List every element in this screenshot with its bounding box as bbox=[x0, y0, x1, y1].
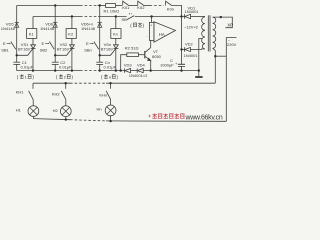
wire collector to HA bbox=[150, 40, 152, 47]
node busA VS1 bbox=[32, 69, 34, 71]
transistor VT bbox=[144, 51, 146, 59]
svg-text:n: n bbox=[109, 75, 111, 80]
switch SB2 blade bbox=[49, 42, 54, 50]
node xfmr top bbox=[220, 16, 222, 18]
thyristor VS2 bbox=[71, 38, 73, 44]
node rail2 K2 bbox=[71, 15, 73, 17]
diode VD6n bbox=[97, 22, 102, 27]
svg-text:): ) bbox=[117, 75, 119, 80]
wire coil bottom stub bbox=[202, 48, 206, 50]
node xfmr bottom bbox=[214, 55, 216, 57]
node rail1 ch2 bbox=[54, 4, 56, 6]
svg-text:K01: K01 bbox=[122, 5, 130, 10]
ground bbox=[198, 71, 200, 77]
wire primary bottom bbox=[213, 48, 216, 56]
diode VD4 bbox=[136, 68, 138, 72]
wire rail2 after SB bbox=[135, 16, 184, 18]
svg-text:VD2: VD2 bbox=[185, 42, 194, 47]
wire 220V bracket bbox=[226, 38, 236, 57]
svg-text:): ) bbox=[72, 75, 74, 80]
svg-text:R1 10kΩ: R1 10kΩ bbox=[104, 9, 120, 14]
wire busA mid bbox=[98, 70, 124, 72]
thyristor VSn bbox=[115, 38, 117, 44]
wire mains down bbox=[225, 56, 227, 121]
wire lamp bottoms bbox=[32, 116, 34, 118]
svg-text:HA: HA bbox=[159, 32, 165, 37]
node VD2 bbox=[180, 48, 182, 50]
switch contact K02 bbox=[138, 1, 144, 5]
svg-text:1N4148: 1N4148 bbox=[40, 26, 55, 31]
relay K1 box bbox=[27, 29, 37, 39]
node busA C bbox=[180, 69, 182, 71]
node busA Cn bbox=[99, 69, 101, 71]
node busA C2 bbox=[54, 69, 56, 71]
svg-text:220V: 220V bbox=[227, 42, 237, 47]
svg-text:K02: K02 bbox=[137, 5, 145, 10]
svg-text:H2: H2 bbox=[53, 108, 59, 113]
svg-text:~12V×2: ~12V×2 bbox=[184, 24, 199, 29]
node busA VS2 bbox=[71, 69, 73, 71]
wire rail1 top bbox=[17, 5, 80, 7]
svg-text:0.01μF: 0.01μF bbox=[59, 64, 72, 69]
svg-text:SB: SB bbox=[122, 17, 128, 22]
capacitor C2 bbox=[54, 55, 56, 62]
lamp Hn bbox=[105, 105, 116, 116]
resistor R2 bbox=[127, 53, 139, 57]
wire VD3-VD4 bbox=[131, 70, 138, 72]
svg-text:KH1: KH1 bbox=[16, 90, 25, 95]
node busA VT bbox=[150, 69, 152, 71]
wire VD1 to transformer bbox=[191, 16, 205, 18]
wire busB bbox=[33, 82, 70, 84]
diode VD2 bbox=[184, 47, 186, 51]
svg-text:): ) bbox=[143, 23, 145, 28]
node rail1 chn bbox=[99, 4, 101, 6]
svg-text:SBn: SBn bbox=[84, 47, 92, 52]
wire rail2 bbox=[33, 16, 80, 18]
wire center tap ground bbox=[199, 39, 202, 71]
wire VD6 branch ch2 bbox=[54, 6, 56, 56]
wire gate VSn bbox=[100, 49, 116, 56]
svg-text:+: + bbox=[150, 24, 152, 28]
svg-text:SB2: SB2 bbox=[40, 47, 48, 52]
svg-text:1000μF: 1000μF bbox=[160, 63, 174, 68]
wire busA left bbox=[17, 70, 80, 72]
node ground bbox=[198, 69, 200, 71]
capacitor C1 bbox=[16, 55, 18, 62]
wire rail1 to R1 bbox=[98, 5, 106, 7]
node busB KHn bbox=[109, 82, 111, 84]
node gate1 bbox=[16, 54, 18, 56]
svg-text:2: 2 bbox=[64, 75, 67, 80]
svg-text:E: E bbox=[3, 41, 6, 46]
wire VD2 to coil bottom bbox=[190, 48, 201, 51]
switch SB1 blade bbox=[11, 42, 16, 50]
svg-text:H1: H1 bbox=[16, 108, 22, 113]
capacitor C 1000uF bbox=[178, 63, 185, 65]
wire HA to rail2 bbox=[151, 17, 153, 23]
svg-text:BT169: BT169 bbox=[57, 47, 70, 52]
wire K0n to corner bbox=[172, 6, 182, 17]
svg-text:0.01μF: 0.01μF bbox=[104, 64, 117, 69]
lamp H1 bbox=[28, 106, 39, 117]
node gate2 bbox=[54, 54, 56, 56]
node busB KH2 bbox=[65, 82, 67, 84]
svg-text:(: ( bbox=[56, 75, 58, 80]
svg-text:+: + bbox=[175, 61, 178, 66]
node busA VSn bbox=[115, 69, 117, 71]
switch contact K0n bbox=[166, 1, 172, 5]
diode VD5 bbox=[14, 22, 19, 27]
wire emitter to busA bbox=[150, 61, 152, 71]
svg-text:E: E bbox=[42, 41, 45, 46]
transformer primary coil bbox=[213, 17, 216, 48]
wire primary top to XP bbox=[213, 17, 233, 28]
wire VD6n branch chn bbox=[99, 6, 101, 56]
speaker HA bbox=[149, 22, 154, 40]
svg-text:8050: 8050 bbox=[152, 54, 162, 59]
svg-text:BT169: BT169 bbox=[18, 47, 31, 52]
svg-text:Hn: Hn bbox=[97, 106, 102, 111]
svg-text:www.66kv.cn: www.66kv.cn bbox=[185, 114, 223, 121]
switch KHn bbox=[110, 83, 112, 89]
svg-text:-: - bbox=[147, 34, 148, 38]
diode VD1 bbox=[183, 14, 185, 19]
svg-text:): ) bbox=[32, 75, 34, 80]
svg-text:KH2: KH2 bbox=[52, 92, 61, 97]
wire K2 drop bbox=[71, 17, 73, 29]
switch KH1 bbox=[32, 83, 34, 89]
resistor R1 bbox=[106, 4, 116, 8]
node rail2 HA bbox=[150, 15, 152, 17]
transformer core bbox=[207, 15, 209, 51]
wire K1 drop bbox=[32, 17, 34, 29]
relay K2 box bbox=[66, 29, 76, 39]
svg-text:1N4148: 1N4148 bbox=[81, 26, 96, 31]
wire rail1 dashed bbox=[80, 5, 98, 7]
thyristor VS1 bbox=[32, 38, 34, 44]
switch contact K01 bbox=[123, 1, 129, 5]
node lampbus KH2 bbox=[65, 118, 67, 120]
node gaten bbox=[99, 54, 101, 56]
svg-text:1N4001: 1N4001 bbox=[185, 9, 200, 14]
switch SB actuator bbox=[129, 13, 132, 15]
switch SB blade bbox=[127, 16, 134, 20]
svg-text:(: ( bbox=[17, 75, 19, 80]
wire R2 branch bbox=[121, 55, 127, 71]
node lampbus KHn bbox=[109, 120, 111, 122]
node busA R2 bbox=[120, 69, 122, 71]
capacitor Cn bbox=[99, 55, 101, 62]
svg-text:1: 1 bbox=[25, 75, 28, 80]
svg-text:VD3: VD3 bbox=[124, 62, 133, 67]
switch KH2 bbox=[65, 83, 67, 89]
wire K01-K02 bbox=[129, 5, 138, 7]
wire R1 to K01 bbox=[116, 5, 123, 7]
svg-text:1N4148: 1N4148 bbox=[1, 26, 16, 31]
svg-text:VD4: VD4 bbox=[137, 62, 146, 67]
svg-text:(: ( bbox=[130, 23, 132, 28]
wire to XP bottom bbox=[215, 55, 226, 57]
svg-text:(: ( bbox=[101, 75, 103, 80]
relay Kn box bbox=[111, 29, 121, 39]
wire VD5 branch ch1 bbox=[16, 6, 18, 56]
wire Kn drop bbox=[115, 17, 117, 29]
diode VD3 bbox=[124, 68, 126, 72]
svg-text:Kn: Kn bbox=[113, 32, 118, 37]
watermark bbox=[148, 115, 151, 118]
svg-text:K1: K1 bbox=[29, 32, 35, 37]
svg-text:1N4001: 1N4001 bbox=[184, 53, 199, 58]
wire gate VS2 bbox=[55, 49, 71, 56]
svg-text:SB1: SB1 bbox=[1, 47, 9, 52]
wire K02 dashed bbox=[150, 5, 164, 7]
svg-text:R2 51Ω: R2 51Ω bbox=[125, 46, 139, 51]
svg-text:BT169: BT169 bbox=[101, 47, 114, 52]
svg-text:K2: K2 bbox=[68, 32, 74, 37]
wire busA dashed bbox=[80, 70, 98, 72]
wire busA right bbox=[143, 70, 199, 72]
svg-text:XP: XP bbox=[227, 22, 233, 27]
wire busB right vertical bbox=[214, 56, 216, 83]
wire R2 to base bbox=[138, 54, 144, 56]
switch SBn blade bbox=[94, 42, 99, 50]
wire gate VS1 bbox=[17, 49, 33, 56]
svg-text:KHn: KHn bbox=[99, 92, 107, 97]
svg-text:1N4001×2: 1N4001×2 bbox=[129, 73, 148, 78]
node rail2 12V bbox=[180, 15, 182, 17]
diode VD6 bbox=[53, 22, 58, 27]
node rail2 Kn bbox=[115, 15, 117, 17]
svg-text:0.01μF: 0.01μF bbox=[21, 64, 34, 69]
svg-text:K0n: K0n bbox=[167, 7, 174, 12]
wire 12V node vertical bbox=[181, 17, 183, 65]
svg-text:E: E bbox=[86, 41, 89, 46]
transformer secondary coil bbox=[202, 17, 205, 49]
wire K02 bbox=[144, 5, 150, 7]
lamp H2 bbox=[60, 106, 71, 117]
